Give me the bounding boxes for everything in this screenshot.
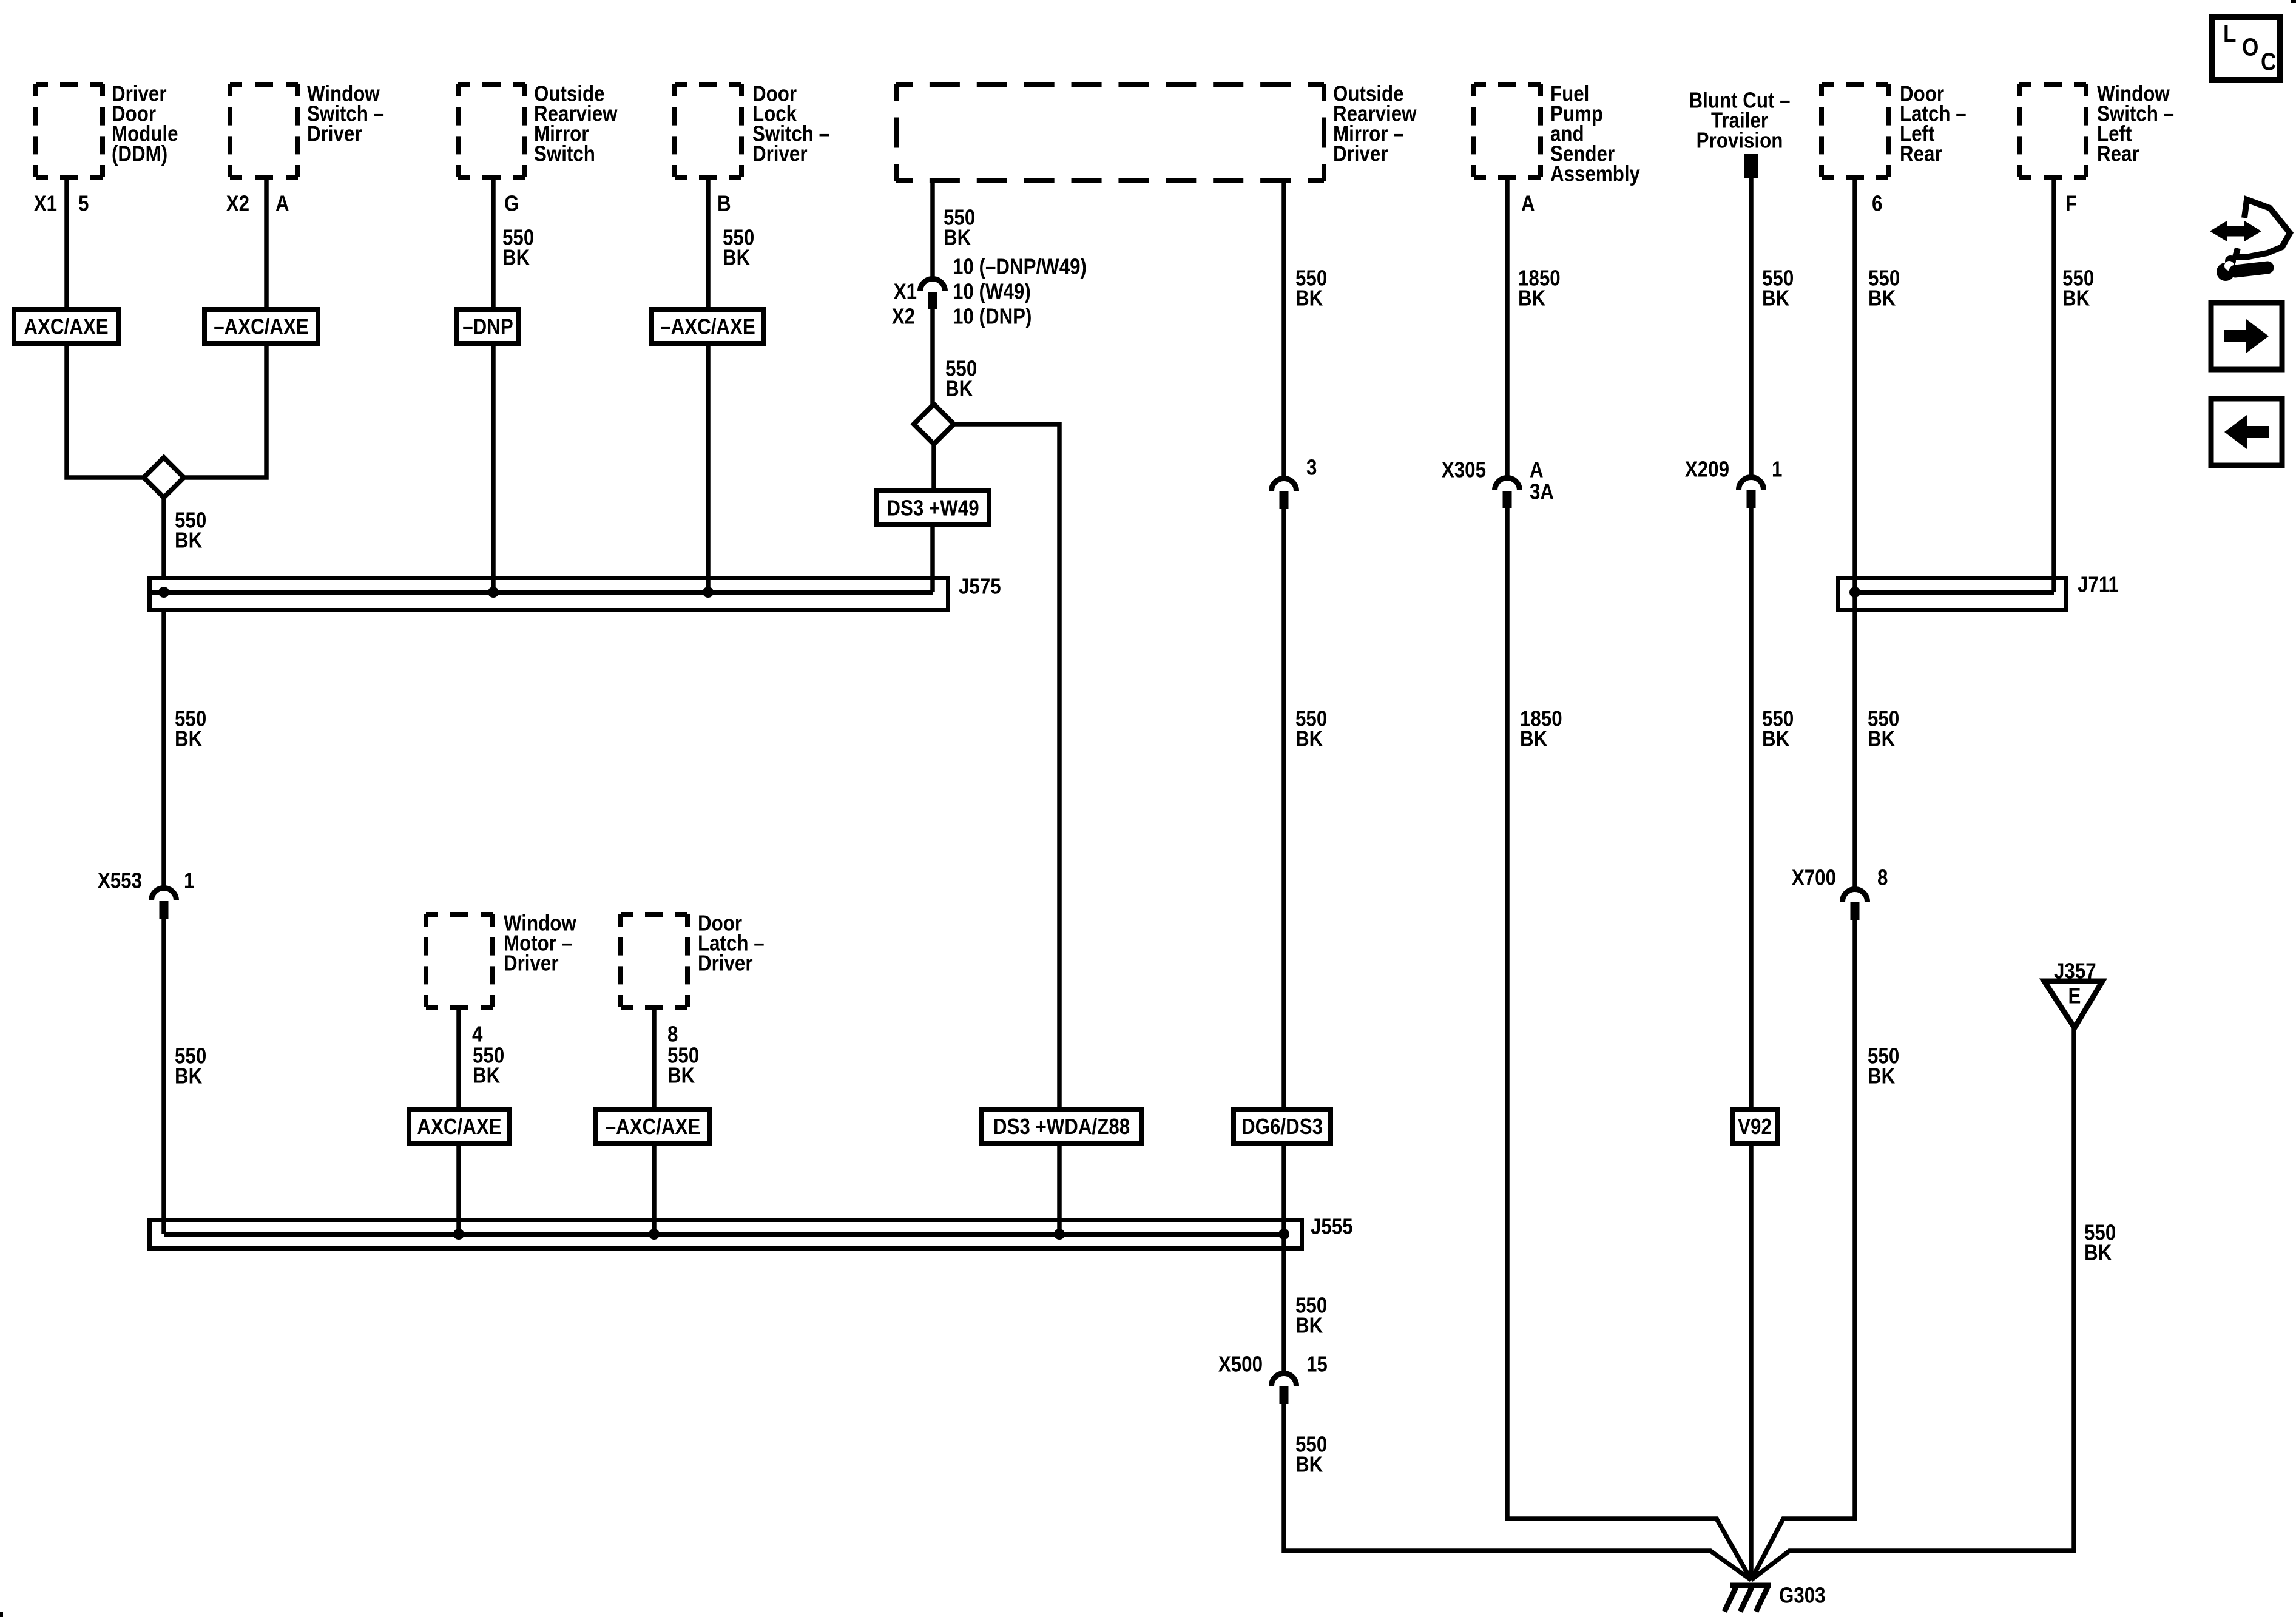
wire: Mirror Switch pin G down — [491, 180, 496, 307]
fuse label box: V92 — [1732, 1109, 1777, 1144]
svg-text:J555: J555 — [1311, 1214, 1353, 1239]
svg-text:BK: BK — [667, 1063, 695, 1088]
svg-text:–AXC/AXE: –AXC/AXE — [660, 314, 755, 339]
component box: Door Lock Switch - Driver — [675, 81, 829, 177]
svg-text:X1: X1 — [894, 279, 917, 304]
wire: connector 3 down to DG6/DS3 — [1281, 509, 1286, 1107]
svg-text:A: A — [1521, 191, 1535, 216]
pin X1 5 of DDM — [34, 191, 89, 216]
connector X500 pin 15 — [1218, 1352, 1328, 1404]
component box: Window Motor - Driver — [426, 911, 576, 1007]
svg-text:A: A — [275, 191, 289, 216]
fuse label box: AXC/AXE (window motor) — [409, 1109, 510, 1144]
wire: Door Lock Switch pin B down — [706, 180, 711, 307]
svg-text:BK: BK — [1868, 1064, 1896, 1089]
svg-text:BK: BK — [1295, 286, 1323, 311]
svg-text:BK: BK — [944, 225, 971, 250]
connector X209 pin 1 — [1685, 457, 1783, 508]
svg-text:5: 5 — [78, 191, 89, 216]
svg-text:BK: BK — [2084, 1240, 2112, 1265]
component box: Window Switch - Driver — [230, 81, 384, 177]
legend icon: power flow / door with arrows and wrench — [2210, 200, 2290, 281]
wire: DS3 +W49 to junction block J575 — [930, 527, 935, 592]
wire: Door Latch pin 8 down — [652, 1010, 657, 1107]
page corner tick marks — [2291, 0, 2296, 3]
svg-text:C: C — [2261, 48, 2276, 76]
junction block J711 — [1838, 572, 2119, 610]
svg-text:BK: BK — [1868, 726, 1896, 751]
wire: AXC/AXE to J555 — [456, 1146, 461, 1234]
junction dot J575/-DNP wire — [488, 587, 499, 598]
svg-text:Assembly: Assembly — [1550, 161, 1640, 186]
svg-text:BK: BK — [473, 1063, 501, 1088]
node: Blunt Cut - Trailer Provision — [1689, 88, 1791, 178]
svg-text:1: 1 — [184, 868, 194, 893]
splice (diamond) DDM/WindowSwitch — [144, 457, 184, 498]
svg-text:L: L — [2223, 20, 2236, 48]
svg-text:AXC/AXE: AXC/AXE — [24, 314, 108, 339]
svg-text:BK: BK — [175, 528, 203, 553]
fuse label box: -AXC/AXE (window switch driver) — [204, 309, 318, 343]
component box: Fuel Pump and Sender Assembly — [1474, 81, 1640, 186]
wire: -AXC/AXE (door lock) down to J575 — [706, 346, 711, 592]
svg-text:3: 3 — [1306, 455, 1317, 480]
junction dot J555/DS3 wire — [1054, 1229, 1065, 1240]
wire: Door Latch pin 6 down through J711 to X700 — [1852, 180, 1857, 889]
junction dot J555/door latch wire — [649, 1229, 660, 1240]
wire: J357 down and left to ground G303 — [1751, 1028, 2074, 1580]
splice (diamond) on DS3 wire — [914, 404, 954, 444]
wire: Window Switch pin A down — [264, 180, 269, 307]
wire: X500 down and right to ground G303 — [1284, 1404, 1751, 1580]
svg-text:Driver: Driver — [1333, 141, 1388, 166]
wire: -AXC/AXE to J555 — [652, 1146, 657, 1234]
connector pin 3 (inline) — [1272, 455, 1317, 509]
svg-text:BK: BK — [1518, 286, 1546, 311]
svg-text:3A: 3A — [1530, 479, 1554, 504]
svg-text:J711: J711 — [2078, 572, 2119, 597]
junction dot J711/door latch wire — [1849, 587, 1860, 598]
connector X700 pin 8 — [1792, 865, 1888, 920]
svg-text:BK: BK — [1520, 726, 1548, 751]
svg-text:10 (–DNP/W49): 10 (–DNP/W49) — [953, 254, 1087, 279]
component box: Outside Rearview Mirror Switch — [458, 81, 618, 177]
svg-text:BK: BK — [1295, 1313, 1323, 1338]
svg-text:X553: X553 — [98, 868, 142, 893]
svg-text:10 (DNP): 10 (DNP) — [953, 304, 1032, 329]
svg-text:AXC/AXE: AXC/AXE — [417, 1115, 501, 1139]
svg-text:BK: BK — [1295, 726, 1323, 751]
pin X2 A of Window Switch - Driver — [226, 191, 289, 216]
wire: Fuel Pump pin A down to X305 — [1505, 180, 1510, 478]
fuse label box: -DNP (mirror switch) — [457, 309, 519, 343]
svg-text:DS3 +WDA/Z88: DS3 +WDA/Z88 — [993, 1115, 1130, 1139]
fuse label box: AXC/AXE (DDM) — [14, 309, 118, 343]
svg-text:DS3 +W49: DS3 +W49 — [886, 496, 979, 521]
svg-text:BK: BK — [1762, 726, 1790, 751]
legend: L O C box — [2212, 17, 2280, 80]
ground G303 — [1724, 1583, 1826, 1612]
legend: forward arrow box — [2211, 303, 2282, 370]
svg-text:G303: G303 — [1779, 1583, 1826, 1608]
svg-text:X2: X2 — [892, 304, 915, 329]
junction block J575 — [150, 574, 1001, 610]
svg-text:F: F — [2065, 191, 2077, 216]
connector X305 pins A/3A — [1442, 457, 1554, 508]
svg-text:V92: V92 — [1738, 1115, 1772, 1139]
wire: DDM branch down-right to splice — [67, 346, 144, 478]
junction dot J575/-AXC/AXE wire — [703, 587, 714, 598]
svg-text:X305: X305 — [1442, 457, 1486, 482]
svg-text:BK: BK — [1762, 286, 1790, 311]
svg-text:X700: X700 — [1792, 865, 1836, 890]
connector X1/X2 (inline) — [892, 279, 945, 329]
wire: Window Switch pin F down into J711 — [2051, 180, 2056, 592]
wire: X1/X2 connector down to splice diamond — [930, 309, 935, 405]
wire: X305 down and right to ground G303 — [1507, 508, 1751, 1580]
svg-text:X209: X209 — [1685, 457, 1729, 482]
svg-text:E: E — [2068, 984, 2081, 1008]
svg-text:DG6/DS3: DG6/DS3 — [1241, 1115, 1323, 1139]
svg-text:BK: BK — [1868, 286, 1896, 311]
fuse label box: DG6/DS3 — [1234, 1109, 1331, 1144]
component box: Door Latch - Driver — [621, 911, 765, 1007]
svg-text:15: 15 — [1306, 1352, 1328, 1377]
svg-text:X2: X2 — [226, 191, 249, 216]
legend: back arrow box — [2211, 399, 2282, 465]
component box: Window Switch - Left Rear — [2019, 81, 2174, 177]
svg-text:Switch: Switch — [534, 141, 595, 166]
wire: ORM-Driver right pin down to connector 3 — [1281, 183, 1286, 478]
component box: Door Latch - Left Rear — [1822, 81, 1967, 177]
wire: Window Switch branch down-left to splice — [184, 346, 266, 478]
ground reference triangle J357 (E) — [2044, 959, 2102, 1028]
wire: Window Motor pin 4 down — [456, 1010, 461, 1107]
svg-text:O: O — [2242, 33, 2258, 61]
wire: X553 down into J555 — [161, 919, 166, 1234]
svg-text:Provision: Provision — [1697, 128, 1783, 153]
svg-text:J575: J575 — [959, 574, 1001, 599]
svg-text:(DDM): (DDM) — [112, 141, 167, 166]
svg-text:BK: BK — [502, 245, 530, 270]
wire: splice down to DS3 +W49 — [931, 444, 936, 488]
connector X553 pin 1 — [98, 868, 195, 919]
svg-text:X500: X500 — [1218, 1352, 1263, 1377]
component box: Driver Door Module (DDM) — [36, 81, 178, 177]
junction block J555 — [150, 1214, 1353, 1248]
svg-text:–DNP: –DNP — [462, 314, 513, 339]
svg-text:Driver: Driver — [698, 951, 753, 976]
svg-text:BK: BK — [723, 245, 751, 270]
wire: splice branch right to DS3 +WDA/Z88 — [954, 424, 1059, 1107]
wire: -DNP down to J575 — [491, 346, 496, 592]
fuse label box: -AXC/AXE (door latch driver) — [596, 1109, 710, 1144]
svg-text:A: A — [1530, 457, 1544, 482]
wire: V92 down to ground G303 — [1749, 1146, 1754, 1580]
svg-text:–AXC/AXE: –AXC/AXE — [214, 314, 309, 339]
fuse label box: DS3 +WDA/Z88 — [982, 1109, 1141, 1144]
svg-text:1: 1 — [1772, 457, 1782, 482]
svg-text:BK: BK — [175, 726, 203, 751]
connector cavity labels: 10 (-DNP/W49), 10 (W49), 10 (DNP) — [953, 254, 1087, 329]
svg-text:BK: BK — [1295, 1452, 1323, 1477]
wire: X700 down and left to ground G303 — [1751, 920, 1855, 1580]
svg-text:BK: BK — [945, 376, 973, 401]
svg-text:8: 8 — [1877, 865, 1888, 890]
wire: J575 down to connector X553 — [161, 612, 166, 888]
svg-text:X1: X1 — [34, 191, 57, 216]
svg-text:Rear: Rear — [1900, 141, 1942, 166]
component box: Outside Rearview Mirror - Driver — [896, 81, 1417, 181]
svg-text:Driver: Driver — [504, 951, 559, 976]
svg-text:B: B — [717, 191, 731, 216]
junction dot J555/DG6 wire — [1278, 1229, 1289, 1240]
svg-text:G: G — [504, 191, 519, 216]
fuse label box: DS3 +W49 — [877, 491, 989, 525]
svg-text:Driver: Driver — [307, 121, 362, 146]
junction dot J575/DDM-splice wire — [158, 587, 169, 598]
svg-text:6: 6 — [1872, 191, 1882, 216]
svg-text:Driver: Driver — [752, 141, 808, 166]
svg-text:10 (W49): 10 (W49) — [953, 279, 1031, 304]
wire: DDM pin 5 to AXC/AXE fuse box — [64, 180, 69, 307]
svg-text:BK: BK — [175, 1064, 203, 1089]
wire: splice down to J575 — [161, 498, 166, 578]
junction dot J555/window motor wire — [453, 1229, 464, 1240]
svg-text:Rear: Rear — [2097, 141, 2139, 166]
wire: X209 down to V92 — [1749, 508, 1754, 1107]
wire: blunt cut down to X209 — [1749, 178, 1754, 477]
wire: DG6/DS3 through J555 down to X500 — [1281, 1146, 1286, 1373]
svg-text:BK: BK — [2062, 286, 2090, 311]
svg-text:–AXC/AXE: –AXC/AXE — [606, 1115, 701, 1139]
fuse label box: -AXC/AXE (door lock switch) — [652, 309, 764, 343]
wire: ORM-Driver left pin down to X1/X2 connector — [930, 183, 935, 279]
wire: DS3 +WDA/Z88 to J555 — [1057, 1146, 1062, 1234]
